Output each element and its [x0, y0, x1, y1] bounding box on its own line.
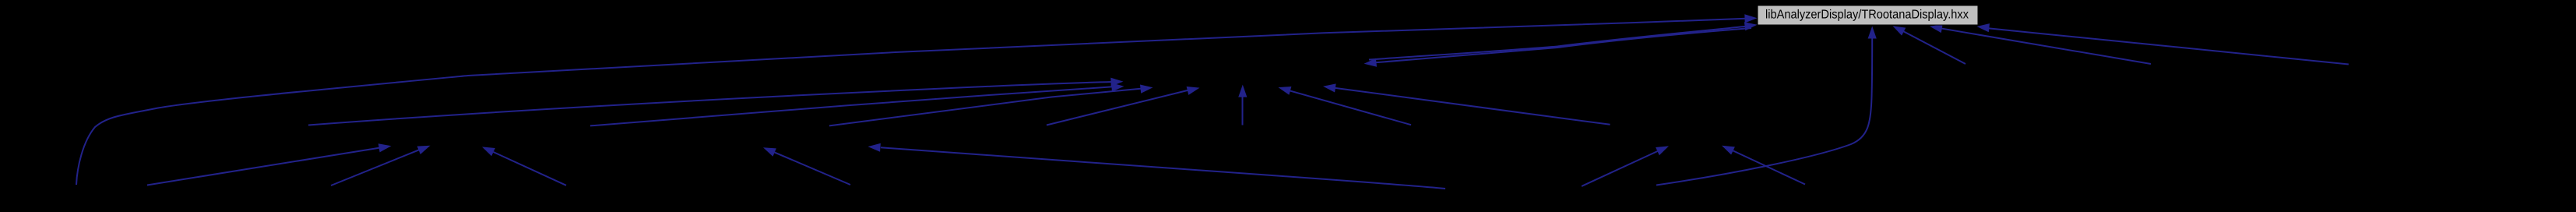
- edge TRootanaDisplay.hxx -> TFancyHistogramCanvas.hxx (P1 pair line, head left): [1364, 28, 1752, 67]
- edge E3 to mid node (head H2): [590, 83, 1124, 125]
- edge E7 long shallow from right into row3 node: [868, 143, 1446, 189]
- edge E6 up-right into row3 node: [147, 143, 392, 185]
- edge E6b steeper up-right into row3 node: [331, 146, 431, 185]
- edge E10 up-right into row3 node: [1582, 146, 1669, 186]
- edge A1 from right into box bottom: [1930, 24, 2151, 64]
- edge E12 from lower-right up-left into row3 node: [482, 147, 566, 185]
- edge short diagonal D1 into box bottom: [1893, 26, 1966, 64]
- edge E9 from lower-right to mid node (head left LH2): [1323, 83, 1610, 124]
- edge E11 from lower-right up-left into row3 node: [1722, 146, 1805, 185]
- edge E8 from lower-right to mid node (head left LH1): [1279, 87, 1412, 125]
- svg-text:libAnalyzerDisplay/TRootanaDis: libAnalyzerDisplay/TRootanaDisplay.hxx: [1765, 9, 1969, 22]
- edge E5 steep to mid node (head H4): [1047, 87, 1200, 125]
- node libAnalyzerDisplay/TRootanaDisplay.hxx (current file, grey): [1758, 5, 1978, 25]
- edge E4 to mid node (head H3): [829, 85, 1153, 126]
- edge big S-curve from below into box bottom (V1): [1656, 26, 1877, 185]
- edge E13 from lower-right up-left into row3 node: [763, 147, 850, 185]
- edge E2 from far-left node up to mid node (head H1): [308, 78, 1124, 125]
- edge V2 vertical into mid node bottom: [1238, 85, 1247, 125]
- edge TFancyHistogramCanvas.hxx -> TRootanaDisplay.hxx (P2 pair line, head right at box): [1369, 22, 1758, 59]
- edge A2 from far right into box bottom-right corner: [1977, 23, 2349, 64]
- edge anaDisplay.cxx -> TRootanaDisplay.hxx (long left curve E1): [76, 14, 1758, 185]
